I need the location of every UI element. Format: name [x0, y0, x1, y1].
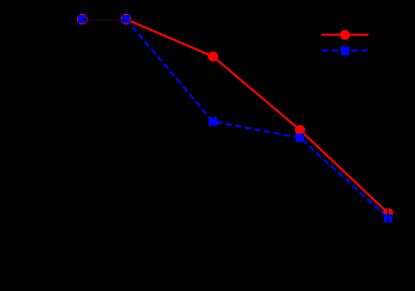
- red circle marker P3: [208, 51, 218, 61]
- legend blue square marker: [341, 47, 350, 56]
- blue square marker Q1: [78, 15, 87, 24]
- black top axis spine cutting through marker 1: [82, 19, 87, 21]
- legend red circle marker: [340, 30, 350, 40]
- blue square marker Q4: [296, 134, 305, 143]
- blue square marker Q3: [209, 117, 218, 126]
- red circle marker P2: [121, 14, 132, 25]
- black top axis spine cutting through marker 2: [121, 19, 132, 20]
- red data line (series 1): [126, 19, 388, 213]
- red line segment P1-P2 (dimmed under black top spine): [86, 19, 122, 21]
- red circle marker P4: [295, 125, 305, 135]
- blue dashed data line (series 2): [126, 19, 388, 218]
- blue square marker Q5: [384, 214, 393, 223]
- red circle marker P1: [77, 14, 88, 25]
- red circle marker P5: [383, 208, 393, 218]
- legend red sample line: [322, 34, 369, 36]
- blue square marker Q2: [122, 15, 131, 24]
- blue dashed segment P1-P2 (dimmed under black top spine): [86, 19, 122, 21]
- legend blue dashed sample line: [322, 50, 369, 52]
- black right axis spine cutting through marker 5: [387, 206, 388, 224]
